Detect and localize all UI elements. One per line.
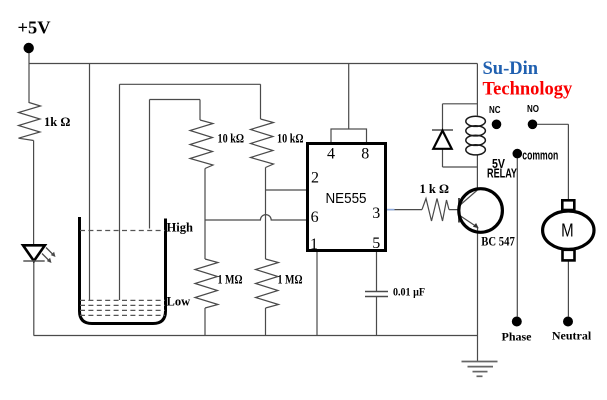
svg-text:Neutral: Neutral [552,329,592,343]
svg-text:BC 547: BC 547 [481,235,515,249]
svg-text:NE555: NE555 [326,190,367,207]
svg-text:3: 3 [372,205,380,222]
svg-text:10 kΩ: 10 kΩ [277,132,304,146]
svg-text:10 kΩ: 10 kΩ [218,132,245,146]
svg-text:RELAY: RELAY [487,167,517,181]
svg-text:8: 8 [361,145,369,162]
svg-text:common: common [522,148,558,163]
svg-text:1 MΩ: 1 MΩ [278,273,303,287]
svg-text:Low: Low [167,295,191,309]
svg-text:1k Ω: 1k Ω [44,115,70,129]
svg-text:+5V: +5V [18,18,51,38]
svg-text:6: 6 [311,209,319,226]
svg-text:1 k Ω: 1 k Ω [420,182,449,196]
svg-text:0.01 µF: 0.01 µF [393,287,425,299]
svg-text:Phase: Phase [502,330,533,344]
svg-text:Su-Din: Su-Din [483,59,539,79]
svg-text:NO: NO [527,104,539,115]
svg-text:M: M [561,220,574,240]
svg-text:Technology: Technology [483,80,574,100]
svg-text:5: 5 [372,235,380,252]
svg-text:NC: NC [489,105,501,116]
svg-text:4: 4 [327,145,335,162]
svg-text:2: 2 [311,170,319,187]
svg-text:High: High [167,221,193,235]
svg-text:1: 1 [310,236,318,253]
svg-text:1 MΩ: 1 MΩ [218,273,243,287]
